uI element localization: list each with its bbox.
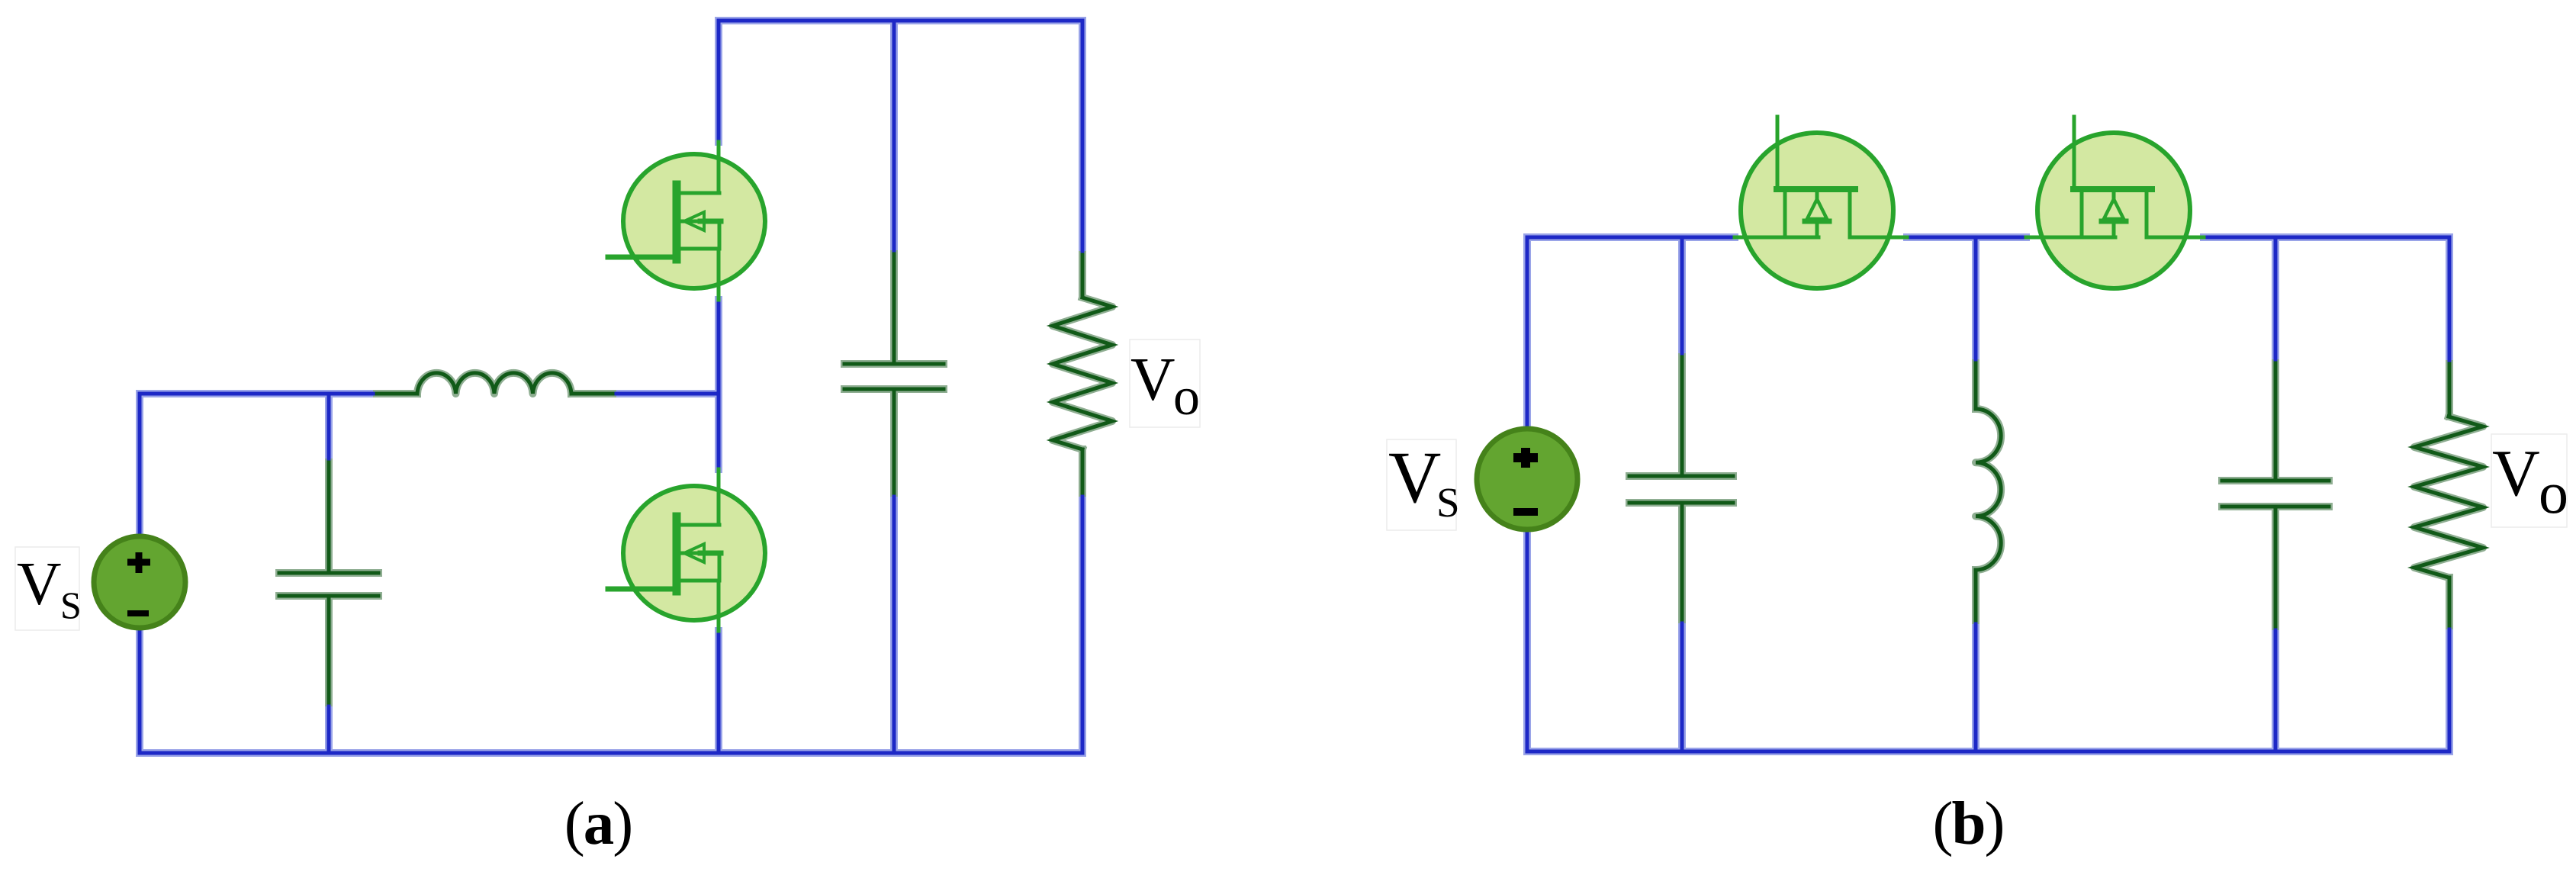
capacitor C1 (fig a input capacitor) [279,462,378,703]
node label VS (fig b) [1387,436,1460,530]
wire: fig(a) switch branch top (drain of Q1) [717,21,721,142]
svg-text:o: o [1173,368,1200,426]
svg-text:o: o [2539,459,2568,526]
wire: fig(b) right vertical lower segment [2448,626,2452,751]
wire: fig(b) top rail left segment [1527,236,1735,240]
wire: fig(a) switch node between Q1 and Q2 [717,300,721,469]
capacitor C2 (fig a output capacitor) [844,254,944,493]
wire: fig(b) top rail right segment [2204,236,2449,240]
svg-text:S: S [60,584,82,626]
inductor L2 (fig b) [1976,363,2001,620]
wire: fig(a) switch branch bottom (source of Q2) [717,631,721,753]
wire: fig(b) right vertical upper segment [2448,237,2452,364]
wire: fig(a) inductor to switch node [613,392,719,396]
wire: fig(a) right vertical lower segment [1081,493,1085,753]
transistor Q3 (fig b left MOSFET) [1735,117,1907,288]
transistor Q1 (fig a upper MOSFET) [608,142,765,300]
caption (a) [564,789,632,858]
wire: fig(a) left vertical through source VS [138,394,142,753]
svg-text:S: S [1436,479,1460,526]
wire halos fig b [1527,237,2483,751]
wire: fig(b) bottom ground rail [1527,750,2449,754]
wire: fig(a) input-cap branch upper blue segment [327,394,331,462]
inductor L1 (fig a) [377,373,613,394]
svg-text:V: V [1388,436,1441,518]
wire: fig(a) bottom ground rail [140,751,1082,755]
wire halos fig a [140,21,1112,753]
capacitor C3 (fig b input capacitor) [1629,357,1733,619]
voltage source VS (fig b) [1477,429,1577,529]
wire: fig(b) left vertical through source VS [1526,237,1529,751]
transistor Q2 (fig a lower MOSFET) [608,469,765,631]
wire: fig(a) input-cap branch lower blue segment [327,703,331,753]
svg-text:(a): (a) [564,789,632,858]
node label VS (fig a) [15,547,82,630]
svg-text:V: V [2492,436,2540,510]
wire: fig(a) output-cap branch upper segment [892,21,896,254]
wire: fig(b) input-cap branch blue segments [1680,237,1684,751]
node label Vo (fig a) [1130,339,1200,427]
wire: fig(a) input rail left of inductor [140,392,377,396]
voltage source VS (fig a) [94,536,185,628]
resistor R2 load Vo (fig b) [2414,364,2483,626]
wire: fig(b) output-cap branch blue segments [2274,237,2278,751]
svg-text:V: V [17,549,62,618]
capacitor C4 (fig b output capacitor) [2222,363,2329,626]
wire: fig(a) output-cap branch lower segment [892,493,896,753]
caption (b) [1932,789,2003,858]
wire: fig(a) right vertical upper segment [1081,21,1085,255]
wire: fig(a) top rail node Vo+ [719,19,1082,23]
transistor Q4 (fig b right MOSFET) [2026,117,2204,288]
svg-text:(b): (b) [1932,789,2003,858]
svg-text:V: V [1130,345,1175,413]
resistor R1 load Vo (fig a) [1053,255,1112,493]
node label Vo (fig b) [2491,434,2568,527]
wire: fig(b) top rail between MOSFETs [1907,236,2026,240]
wire: fig(b) inductor branch blue segments [1974,237,1978,751]
